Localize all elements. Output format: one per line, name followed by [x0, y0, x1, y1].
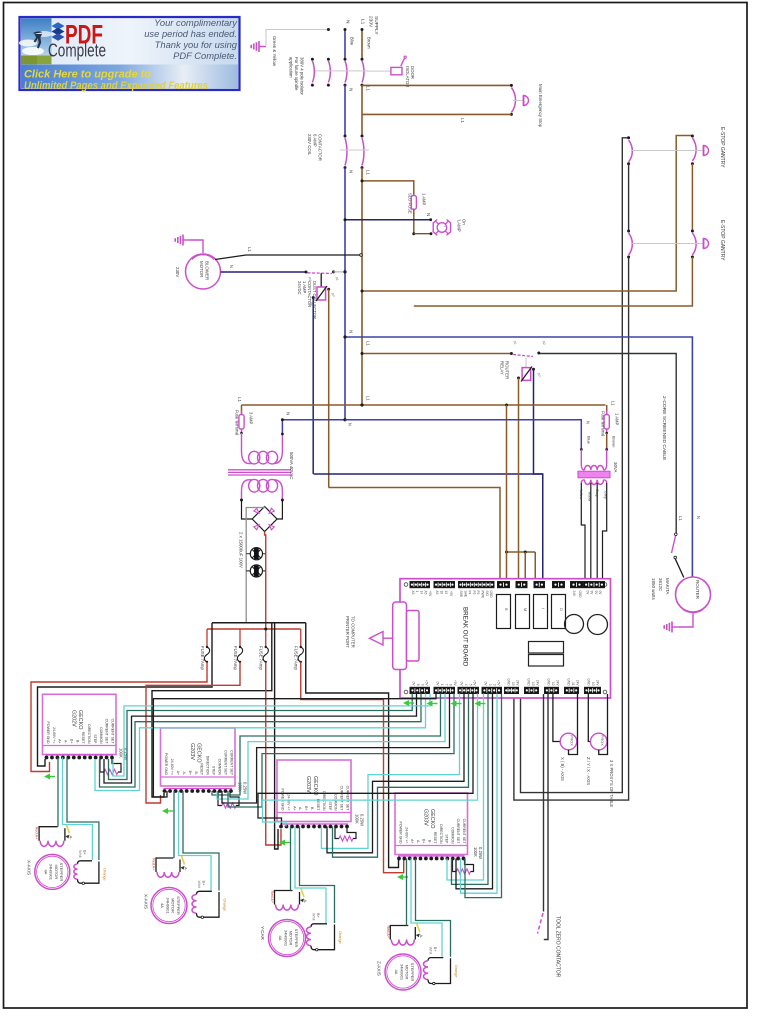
PDF Complete banner box [20, 17, 240, 90]
svg-text:Orange: Orange [223, 899, 227, 912]
e-stop gantry switch 2 black [629, 233, 633, 255]
banner click-here strip [21, 65, 238, 89]
svg-text:GND: GND [507, 678, 511, 686]
wire +V red from bridge [265, 532, 266, 630]
DB25 connector inner [407, 611, 420, 662]
wire dark L1 relay to router switch [540, 354, 676, 534]
contactor link [340, 149, 369, 151]
black arrow A- M2 [181, 866, 185, 870]
svg-text:PROX: PROX [570, 735, 574, 746]
e-stop button 2 [704, 239, 709, 249]
wire black router switch to motor [675, 559, 684, 578]
svg-text:1: 1 [415, 591, 419, 593]
wire L1 brown vertical top [361, 29, 363, 59]
DB25 connector shell [393, 602, 407, 670]
svg-text:L1: L1 [460, 118, 465, 123]
svg-text:24-60V +=: 24-60V += [404, 827, 408, 843]
wire black e-stop chain middle [628, 164, 630, 231]
phase coil A M2 [156, 858, 173, 872]
svg-text:L1: L1 [366, 86, 371, 91]
wire N blue vertical top [344, 29, 346, 59]
svg-text:P4: P4 [468, 591, 472, 595]
svg-text:B+: B+ [433, 947, 437, 953]
breakout board outline [400, 579, 611, 698]
svg-text:GECKO: GECKO [312, 776, 318, 795]
motor wires gecko3 to M3 [290, 827, 292, 891]
svg-text:Whit: Whit [429, 947, 433, 956]
svg-text:Red A+: Red A+ [152, 858, 156, 871]
svg-text:RESET: RESET [81, 732, 85, 745]
printer port arrow [370, 632, 384, 646]
svg-text:+5V: +5V [428, 591, 432, 598]
prox wire 1 feed [553, 694, 560, 742]
svg-text:Fuse terminal: Fuse terminal [235, 410, 240, 435]
svg-text:A+: A+ [176, 771, 180, 775]
door isolator box [391, 67, 402, 74]
svg-text:CURRENT SET: CURRENT SET [462, 819, 466, 845]
svg-text:N: N [696, 516, 701, 519]
wire green-yellow to isolator [266, 30, 328, 47]
svg-text:Red A+: Red A+ [386, 926, 390, 939]
svg-text:N: N [286, 412, 291, 415]
svg-text:p7: p7 [331, 293, 335, 297]
svg-text:4A: 4A [394, 970, 399, 975]
wire brown coil down [328, 289, 330, 487]
svg-text:E-STOP GANTRY: E-STOP GANTRY [719, 220, 725, 261]
stepper motor circle M3 [269, 920, 306, 957]
svg-text:13: 13 [444, 591, 448, 595]
svg-text:5: 5 [468, 684, 472, 686]
fuse terminal 3 AMP [239, 415, 244, 429]
wire black e-stop return to board [514, 257, 629, 800]
svg-text:SIG: SIG [485, 591, 489, 597]
svg-text:24V: 24V [596, 680, 600, 687]
board circle 1 [565, 615, 584, 634]
yellow tick M4 [417, 924, 420, 933]
stepper motor circle M2 [151, 888, 187, 924]
svg-text:X-AXIS: X-AXIS [27, 860, 32, 875]
fuse terminal 1 AMP [604, 415, 609, 430]
black arrow A- M4 [416, 934, 420, 938]
board relay 1 [497, 595, 511, 629]
wire navy dust coil to board [314, 473, 543, 475]
phase coil A M1 [39, 827, 58, 841]
board top terminal blocks [410, 582, 430, 588]
svg-text:+5V: +5V [449, 591, 453, 598]
e-stop link 2 [632, 243, 703, 245]
svg-text:use period has ended.: use period has ended. [144, 28, 237, 39]
svg-text:4: 4 [464, 684, 468, 686]
svg-text:10: 10 [591, 682, 595, 686]
yellow tick M1 [66, 825, 69, 834]
svg-text:24V: 24V [576, 680, 580, 687]
wire red supply gecko1 [31, 662, 207, 772]
motor wires gecko2 to M2 [173, 791, 175, 858]
svg-text:M: M [523, 608, 527, 611]
black arrow A- M3 [300, 899, 304, 903]
svg-text:8: 8 [449, 684, 453, 686]
svg-text:G203V: G203V [305, 776, 311, 793]
svg-text:GND: GND [527, 678, 531, 686]
blower motor earth stem [190, 240, 203, 253]
wire L1 black blower to brown [215, 255, 360, 260]
svg-text:100K: 100K [354, 814, 359, 824]
e-stop link 1 [632, 150, 703, 152]
svg-text:I: I [443, 226, 447, 227]
svg-text:'LAMP': 'LAMP' [457, 219, 462, 233]
svg-text:L1: L1 [360, 19, 366, 25]
transformer 30VA core [578, 471, 610, 478]
capacitor C1 [246, 553, 266, 555]
svg-text:3612C: 3612C [658, 578, 663, 592]
svg-text:L1: L1 [247, 247, 252, 252]
contactor switch N [344, 135, 347, 138]
svg-text:STEP: STEP [328, 801, 332, 811]
svg-text:application: application [289, 57, 294, 78]
wire 0V gray from bridge [246, 507, 264, 623]
board relay 3 [534, 595, 548, 629]
svg-text:SUPPLY: SUPPLY [373, 16, 379, 35]
wire L1 brown to relay contact [362, 353, 511, 355]
wire N blue isolator to contactor [344, 85, 346, 136]
prox wire 2 feed [588, 694, 590, 742]
svg-text:G203V: G203V [189, 743, 195, 760]
wire brown board top links [507, 551, 536, 553]
svg-text:24VDC: 24VDC [297, 281, 302, 295]
e-stop gantry switch 1 black [629, 140, 633, 162]
svg-text:Red A+: Red A+ [35, 827, 39, 840]
svg-text:G202V: G202V [70, 710, 76, 727]
svg-text:16: 16 [440, 591, 444, 595]
svg-text:A+: A+ [410, 839, 414, 843]
svg-text:N: N [349, 88, 354, 91]
main emergency stop button [524, 96, 529, 106]
svg-text:24V: 24V [536, 680, 540, 687]
svg-text:POWER GND: POWER GND [164, 753, 168, 775]
svg-text:B+: B+ [188, 771, 192, 775]
banner PDF logo diamonds [52, 22, 65, 30]
terminal row U3 [280, 823, 348, 825]
wire N navy blower [221, 271, 307, 273]
svg-text:24-60V +=: 24-60V += [170, 759, 174, 775]
svg-text:DIRECTION: DIRECTION [87, 724, 91, 744]
svg-text:Unlimited Pages and Expanded F: Unlimited Pages and Expanded Features [24, 80, 208, 92]
svg-text:STEP: STEP [93, 734, 97, 744]
wire black e-stop feed from board [521, 138, 629, 793]
wire L1 brown isolator node [361, 85, 363, 136]
svg-text:12: 12 [551, 682, 555, 686]
banner photo grass [21, 56, 52, 65]
svg-text:24V: 24V [572, 591, 576, 598]
wire N blue to router [345, 337, 692, 577]
svg-text:For future spindle: For future spindle [294, 57, 299, 91]
svg-text:DIRECTION: DIRECTION [206, 756, 210, 776]
svg-text:SHE: SHE [463, 591, 467, 598]
svg-text:COMMON: COMMON [99, 727, 103, 744]
fuse 7amp branch 4 [300, 629, 302, 647]
phase coil B M4 [428, 958, 443, 961]
svg-text:100K: 100K [473, 847, 478, 857]
svg-text:CURRENT SET: CURRENT SET [111, 719, 115, 745]
svg-text:Main Emergency Stop: Main Emergency Stop [538, 84, 543, 128]
svg-text:MOTOR: MOTOR [199, 261, 204, 277]
svg-text:Z / Y / X - AXIS: Z / Y / X - AXIS [586, 757, 591, 785]
svg-text:A+: A+ [58, 739, 62, 743]
svg-text:Y-CAR: Y-CAR [260, 926, 265, 941]
svg-text:P3: P3 [472, 591, 476, 595]
wire N blue to transformer [282, 420, 345, 434]
capacitor C2 [246, 570, 266, 572]
svg-text:2 x 15000uF 100V: 2 x 15000uF 100V [239, 532, 244, 568]
svg-text:CURRENT SET: CURRENT SET [224, 750, 228, 776]
svg-text:B+: B+ [83, 850, 87, 856]
svg-text:230V: 230V [175, 267, 180, 277]
signal wires board to gecko1 [109, 694, 413, 780]
svg-text:POWER GND: POWER GND [46, 722, 50, 744]
svg-text:100K: 100K [118, 748, 123, 758]
terminal row U1 [46, 754, 114, 756]
svg-text:N: N [586, 421, 591, 424]
svg-text:POWER GND: POWER GND [399, 822, 403, 844]
svg-text:N: N [349, 330, 354, 333]
e-stop button 1 [704, 146, 709, 156]
isolator mechanical link [315, 70, 368, 72]
e-stop gantry switch 2 brown [692, 233, 696, 255]
svg-text:Whit: Whit [197, 881, 201, 890]
svg-text:Z-AXIS: Z-AXIS [377, 961, 382, 976]
svg-text:Brown: Brown [612, 436, 617, 447]
fuse 7amp branch 1 [206, 629, 208, 647]
isolator 4-pole switch [311, 58, 314, 61]
svg-text:Whit: Whit [312, 913, 316, 922]
yellow tick M2 [182, 856, 185, 865]
tool zero switch blade [538, 913, 544, 934]
wire link switch to bus [334, 271, 346, 273]
svg-text:SLO FUSE: SLO FUSE [408, 193, 413, 214]
svg-text:p1: p1 [335, 277, 339, 281]
on lamp symbol [435, 221, 448, 234]
prox sensor 1 [560, 733, 577, 750]
svg-text:B+: B+ [304, 806, 308, 810]
svg-text:COMMON: COMMON [334, 794, 338, 811]
svg-text:CURRENT SET: CURRENT SET [340, 786, 344, 812]
svg-text:Grey: Grey [595, 489, 599, 497]
phase coil B M2 [197, 891, 212, 894]
relay blade stub [525, 358, 527, 368]
svg-text:+5V: +5V [473, 680, 477, 687]
svg-text:Orange: Orange [454, 965, 458, 978]
terminal row U4 [398, 855, 465, 857]
svg-text:1 AMP: 1 AMP [615, 413, 620, 426]
yellow tick M3 [301, 889, 304, 898]
svg-text:DIRECTION: DIRECTION [439, 824, 443, 844]
fuse 1AMP SLO lamp [411, 196, 416, 210]
wire secondary to bridge [242, 500, 253, 519]
svg-text:X ( B) - AXIS: X ( B) - AXIS [560, 757, 565, 781]
svg-text:CURRENT SET: CURRENT SET [230, 750, 234, 776]
svg-text:TO COMPUTER: TO COMPUTER [351, 616, 356, 648]
svg-text:L1: L1 [678, 516, 683, 521]
wire brown fuse to 30VA [606, 433, 608, 450]
phase coil A M3 [275, 891, 293, 905]
wire brown fuse to lamp node [413, 209, 415, 234]
wire brown into 3amp fuse [241, 405, 243, 415]
svg-text:GND: GND [587, 678, 591, 686]
contactor switch L1 [361, 135, 364, 138]
tool zero wire return [544, 694, 548, 940]
svg-text:Whit: Whit [78, 850, 82, 859]
wire navy relay coil to board [534, 369, 543, 578]
bridge rectifier [252, 507, 277, 532]
svg-text:L1: L1 [611, 401, 616, 406]
svg-text:N: N [229, 265, 234, 268]
svg-text:Blue: Blue [587, 436, 592, 445]
svg-text:FUSE 7Amp: FUSE 7Amp [200, 646, 205, 670]
motor wires gecko1 to M1 [57, 758, 59, 827]
svg-text:2: 2 [488, 684, 492, 686]
transformer 500VA secondary [242, 480, 253, 500]
svg-text:RESET: RESET [433, 832, 437, 845]
svg-text:PDF Complete.: PDF Complete. [173, 50, 237, 61]
wire red supply gecko4 [301, 662, 404, 873]
board bottom terminal blocks [410, 687, 430, 693]
svg-text:PWR: PWR [481, 591, 485, 599]
wire brown e-stop return [414, 257, 693, 306]
svg-text:380V 4 pole isolator: 380V 4 pole isolator [300, 57, 305, 96]
wire black blade to coil [320, 273, 322, 287]
svg-text:GND: GND [578, 591, 582, 599]
svg-text:Orange: Orange [338, 931, 342, 944]
wire N blue contactor down [344, 168, 346, 420]
prox sensor 2 [590, 733, 607, 750]
svg-text:3 X PROXY'S ON TABLE: 3 X PROXY'S ON TABLE [609, 760, 614, 807]
stepper driver U2 box [161, 728, 236, 786]
svg-text:COMMON: COMMON [218, 759, 222, 776]
e-stop gantry switch 1 brown [692, 138, 696, 161]
svg-text:4A: 4A [278, 936, 283, 941]
svg-text:N: N [348, 423, 353, 426]
svg-text:1 AMP: 1 AMP [422, 193, 427, 206]
svg-text:CURRENT SET: CURRENT SET [456, 819, 460, 845]
wire black 0V gecko2 [152, 623, 272, 797]
main emergency stop link [513, 100, 523, 102]
wire brown e-stop chain middle [691, 164, 693, 231]
svg-text:A5: A5 [424, 591, 428, 595]
svg-text:GND: GND [489, 591, 493, 599]
svg-text:Red A+: Red A+ [270, 891, 274, 904]
svg-text:3: 3 [492, 684, 496, 686]
svg-text:CURRENT SET: CURRENT SET [105, 719, 109, 745]
svg-text:L1: L1 [366, 396, 371, 401]
terminal row U2 [164, 788, 233, 790]
svg-text:PRINTER PORT: PRINTER PORT [345, 616, 350, 648]
svg-text:GECKO: GECKO [196, 743, 202, 762]
dust collector contactor switch [308, 272, 333, 275]
green arrow gecko4 [399, 876, 408, 878]
svg-text:Yellow: Yellow [579, 489, 583, 500]
svg-text:GECKO: GECKO [429, 809, 435, 828]
banner photo sky [21, 18, 52, 64]
svg-text:7: 7 [444, 684, 448, 686]
transformer 500VA core [228, 469, 291, 471]
svg-text:14: 14 [419, 591, 423, 595]
svg-text:Fuse terminal: Fuse terminal [601, 411, 606, 436]
fuse 7amp branch 3 [265, 629, 267, 647]
svg-text:STEP: STEP [445, 834, 449, 844]
wire black 0V gecko4 [306, 623, 399, 868]
prox wire 2 return [599, 694, 608, 755]
svg-text:11: 11 [571, 682, 575, 686]
wire +V red bus [207, 628, 301, 630]
svg-text:I: I [541, 608, 545, 609]
stepper driver U1 box [43, 694, 117, 754]
router motor circle [676, 577, 711, 612]
door isolator link [367, 70, 391, 72]
svg-text:DIRECTION: DIRECTION [322, 791, 326, 811]
board relay 4 [552, 595, 566, 629]
svg-text:9: 9 [420, 684, 424, 686]
svg-text:X-AXIS: X-AXIS [144, 894, 149, 909]
svg-text:CURRENT SET: CURRENT SET [346, 786, 350, 812]
stepper motor circle M1 [35, 854, 70, 889]
svg-text:6: 6 [416, 684, 420, 686]
svg-text:ISOLATOR: ISOLATOR [405, 66, 410, 87]
wire brown 405 drop to board [506, 405, 508, 578]
svg-text:GND: GND [547, 678, 551, 686]
motor wires gecko4 to M4 [406, 859, 408, 926]
green arrow gecko3 [281, 842, 290, 844]
wire brown dust coil to board [329, 488, 501, 579]
board relay 2 [516, 595, 530, 629]
svg-text:1850 watts: 1850 watts [651, 578, 656, 601]
transformer 30VA secondary [585, 480, 604, 485]
svg-text:2-CORE SCREENED CABLE: 2-CORE SCREENED CABLE [661, 396, 667, 461]
transformer 500VA primary [242, 433, 253, 464]
svg-text:RESET: RESET [200, 763, 204, 776]
dust collector coil [317, 287, 326, 300]
svg-text:L1: L1 [366, 170, 371, 175]
svg-text:Blue: Blue [350, 37, 355, 46]
router relay contact blade [513, 355, 533, 357]
svg-text:TOOL ZERO CONTACTOR: TOOL ZERO CONTACTOR [555, 916, 561, 978]
svg-text:B+: B+ [422, 839, 426, 843]
svg-text:L1: L1 [366, 341, 371, 346]
stepper driver U3 box [277, 760, 351, 822]
svg-text:N: N [426, 213, 431, 216]
svg-text:E-STOP GANTRY: E-STOP GANTRY [719, 127, 725, 168]
svg-text:B+: B+ [202, 881, 206, 887]
svg-text:A5: A5 [435, 591, 439, 595]
svg-text:Green & Yellow: Green & Yellow [272, 36, 277, 67]
svg-text:24-60V +=: 24-60V += [286, 794, 290, 810]
svg-text:BLOWER: BLOWER [205, 261, 210, 280]
current set resistor U3 [335, 827, 339, 839]
svg-text:SHE: SHE [459, 591, 463, 598]
svg-text:FUSE 7Amp: FUSE 7Amp [294, 646, 299, 670]
svg-text:B+: B+ [316, 913, 320, 919]
svg-text:13: 13 [531, 682, 535, 686]
board circle 2 [588, 615, 608, 635]
wire L1 brown emergency loop top [362, 84, 511, 86]
svg-text:FUSE 7Amp: FUSE 7Amp [233, 646, 238, 670]
tool zero wire feed [543, 694, 545, 912]
current set resistor U1 [100, 758, 104, 773]
signal wires board to gecko4 [447, 694, 484, 881]
svg-text:Grey: Grey [604, 491, 608, 499]
svg-text:RELAY: RELAY [499, 361, 504, 375]
svg-text:BREAK OUT BOARD: BREAK OUT BOARD [462, 607, 469, 667]
router earth symbol [672, 626, 679, 628]
